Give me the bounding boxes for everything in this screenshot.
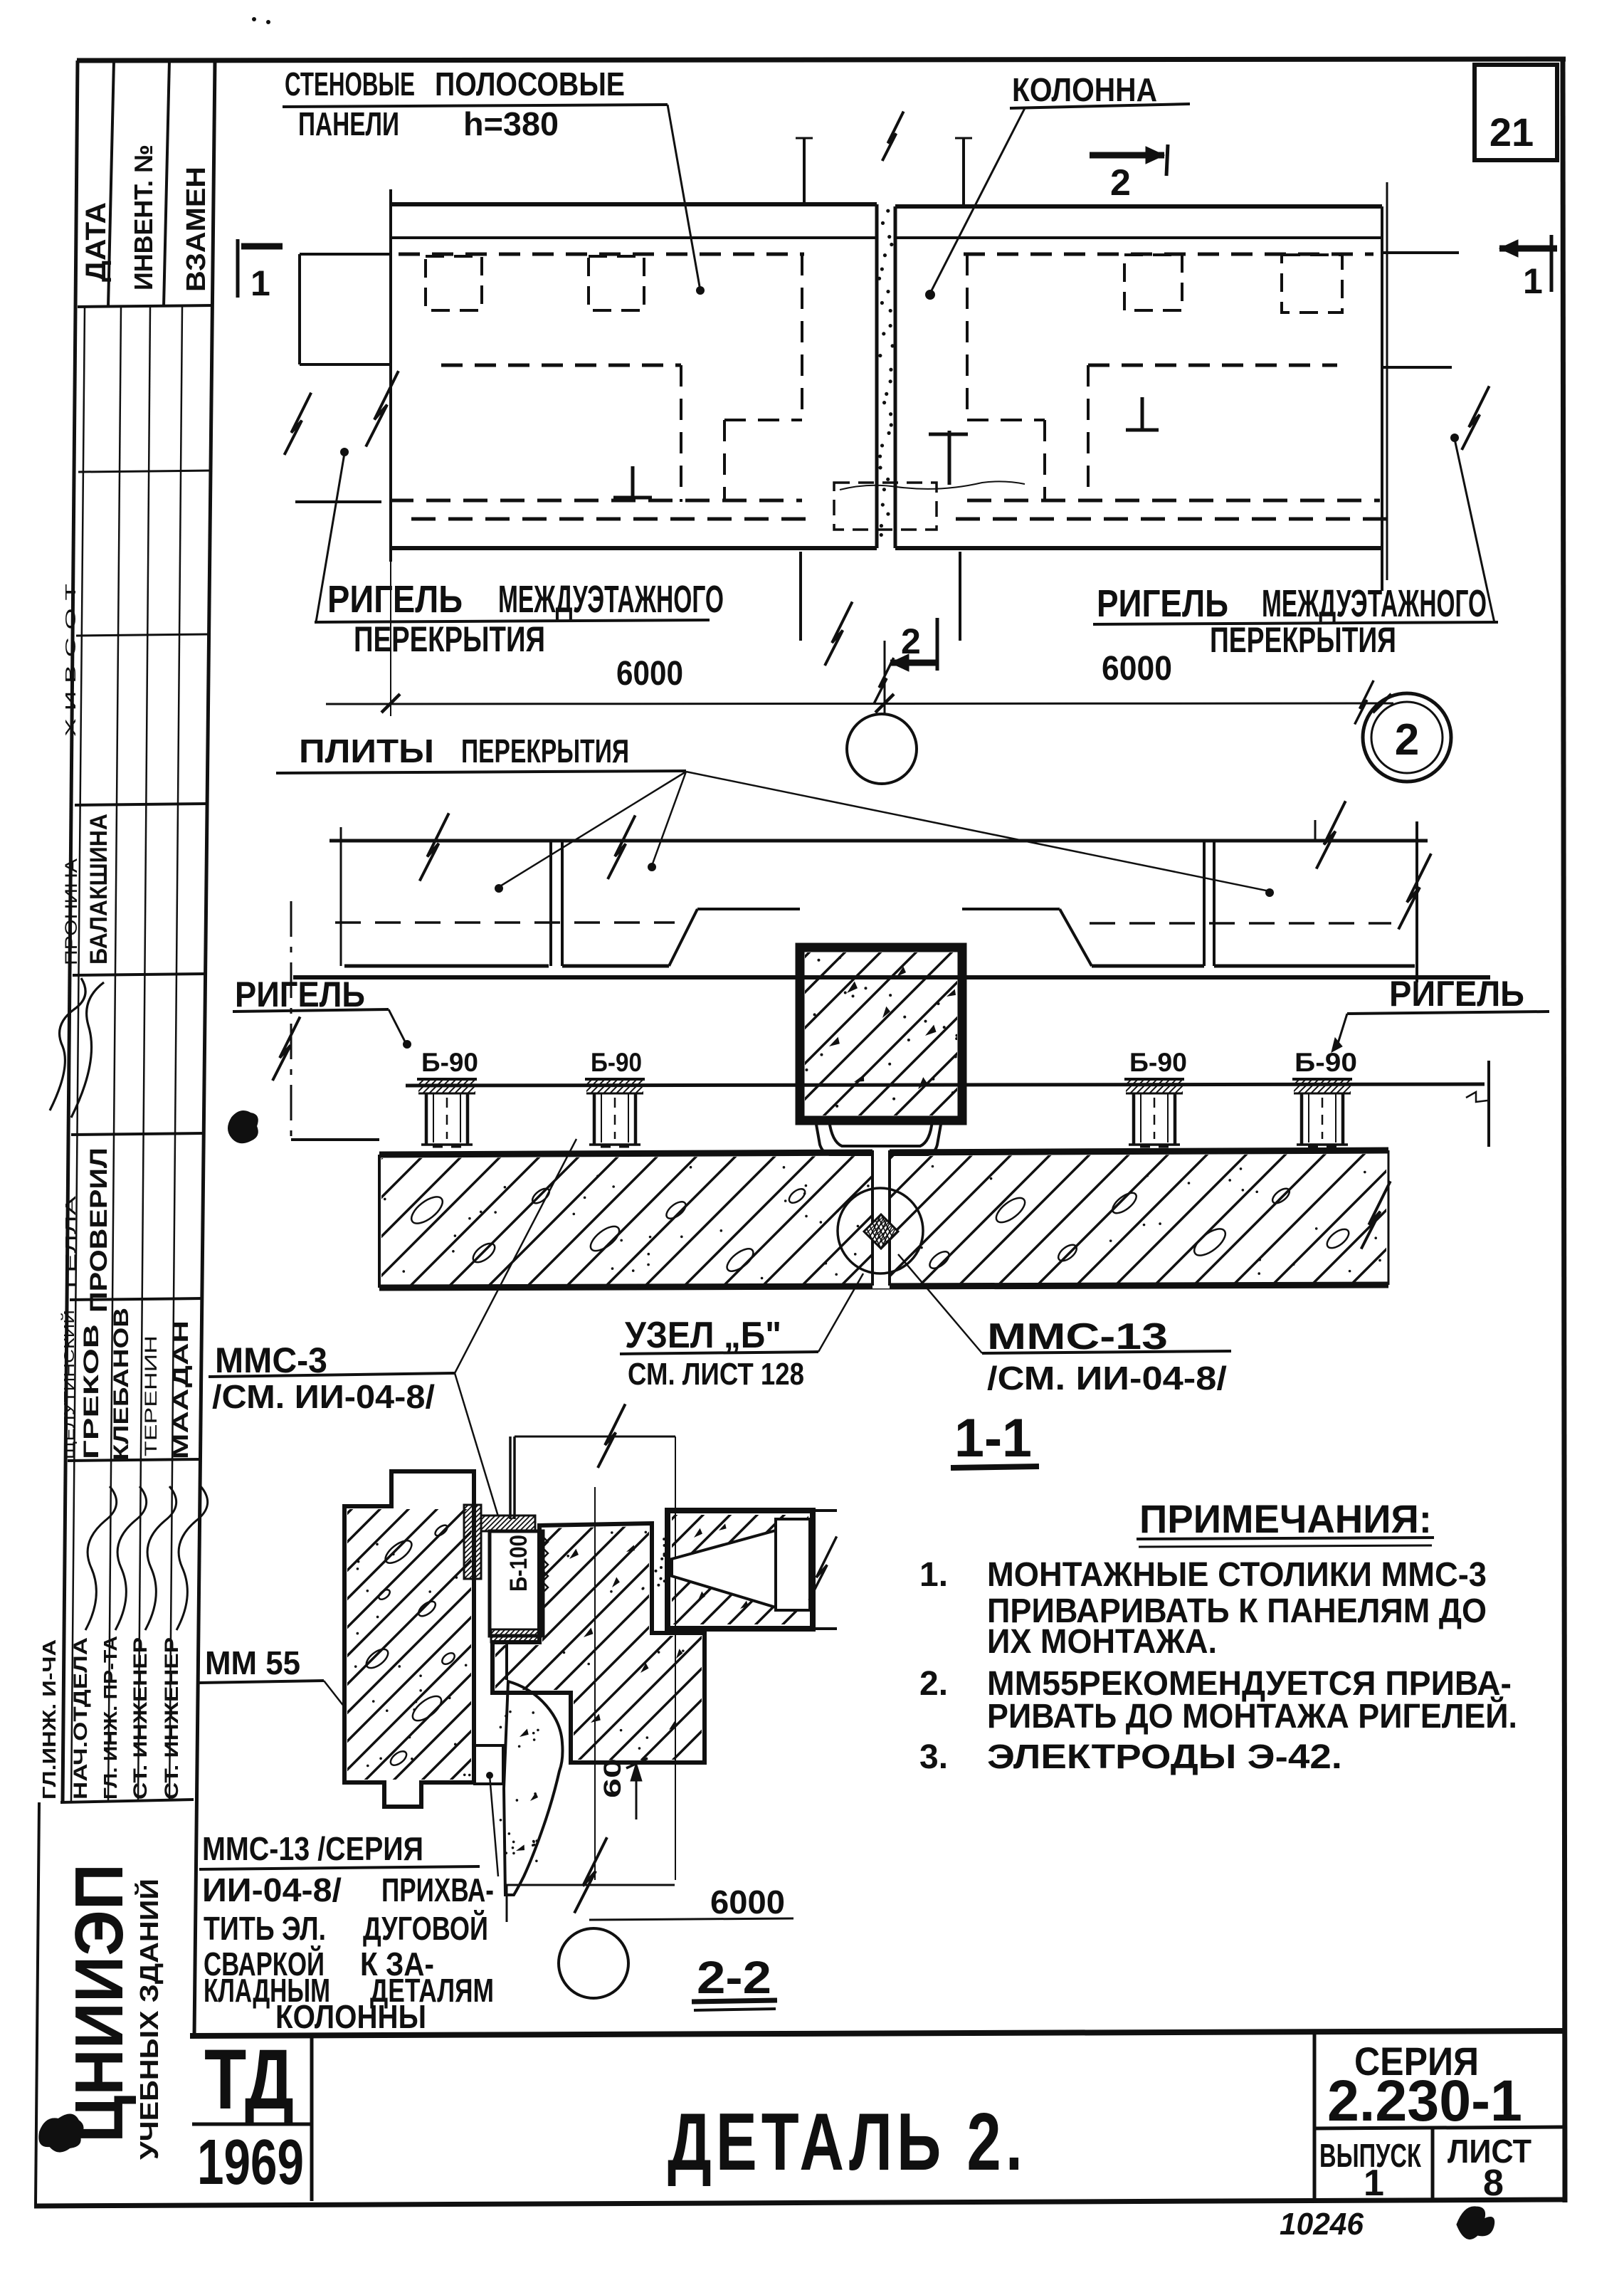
dimension 60 — [636, 1764, 638, 1819]
svg-text:СМ. ЛИСТ 128: СМ. ЛИСТ 128 — [628, 1357, 804, 1392]
svg-text:ЩЕЛУТИНСКИЙ: ЩЕЛУТИНСКИЙ — [60, 1310, 78, 1459]
floor slab top — [329, 839, 1428, 843]
wall continuation left — [300, 253, 391, 256]
slab joint left — [549, 842, 552, 966]
svg-text:ПЕРЕКРЫТИЯ: ПЕРЕКРЫТИЯ — [461, 732, 629, 770]
svg-text:ПРОНИНА: ПРОНИНА — [62, 858, 81, 965]
leaders to floor slabs — [499, 772, 686, 887]
svg-text:ГЕЛЛА: ГЕЛЛА — [63, 1195, 79, 1288]
cast weld blob — [504, 1681, 563, 1895]
svg-text:РИГЕЛЬ: РИГЕЛЬ — [1097, 582, 1228, 625]
title block top line — [190, 2031, 1564, 2036]
svg-text:2: 2 — [901, 621, 921, 661]
leader to column — [930, 108, 1025, 293]
svg-text:КЛЕБАНОВ: КЛЕБАНОВ — [110, 1308, 133, 1461]
svg-text:КОЛОННЫ: КОЛОННЫ — [275, 1998, 426, 2035]
svg-text:8: 8 — [1483, 2163, 1504, 2204]
svg-text:ММС-13 /СЕРИЯ: ММС-13 /СЕРИЯ — [202, 1830, 423, 1867]
column cross-section (hatched) — [800, 947, 962, 1120]
slab bottoms — [344, 965, 549, 968]
svg-text:ПРИХВА-: ПРИХВА- — [381, 1871, 494, 1908]
svg-text:ММ 55: ММ 55 — [205, 1644, 300, 1681]
hidden riegel outline left — [441, 364, 681, 367]
svg-text:ГЛ. ИНЖ. ПР-ТА: ГЛ. ИНЖ. ПР-ТА — [100, 1636, 121, 1800]
svg-text:ВЗАМЕН: ВЗАМЕН — [181, 167, 211, 292]
leader to left panel — [668, 105, 700, 290]
weld mark right panel — [948, 431, 951, 485]
svg-text:6000: 6000 — [710, 1884, 785, 1921]
svg-text:ДЕТАЛЬ 2.: ДЕТАЛЬ 2. — [668, 2097, 1027, 2187]
panel face edge — [473, 1471, 476, 1782]
svg-text:ГРЕКОВ: ГРЕКОВ — [80, 1324, 103, 1459]
svg-text:СТЕНОВЫЕ: СТЕНОВЫЕ — [285, 65, 415, 103]
wall panel left (plan) — [391, 202, 877, 206]
weld seam bottom — [491, 1629, 539, 1642]
svg-text:21: 21 — [1489, 110, 1534, 154]
seriya box — [1313, 2033, 1317, 2201]
wall panel band (hatched concrete) — [379, 1150, 1388, 1155]
column (plan) above panel — [803, 138, 806, 204]
svg-text:ПЛИТЫ: ПЛИТЫ — [299, 732, 434, 770]
svg-text:1-1: 1-1 — [954, 1408, 1032, 1469]
svg-text:МЕЖДУЭТАЖНОГО: МЕЖДУЭТАЖНОГО — [1262, 582, 1487, 625]
panel joint in band — [872, 1149, 890, 1288]
svg-text:ПЕРЕКРЫТИЯ: ПЕРЕКРЫТИЯ — [1210, 620, 1396, 660]
svg-text:Б-100: Б-100 — [505, 1535, 532, 1592]
axis circle 2-2 — [559, 1928, 628, 1998]
svg-text:БАЛАКШИНА: БАЛАКШИНА — [85, 814, 112, 965]
svg-text:СТ. ИНЖЕНЕР: СТ. ИНЖЕНЕР — [130, 1637, 151, 1800]
sidebar signature — [50, 978, 85, 1110]
border frame right — [1563, 59, 1565, 2202]
svg-text:2-2: 2-2 — [697, 1952, 771, 2003]
svg-text:РИВАТЬ ДО МОНТАЖА РИГЕЛЕЙ.: РИВАТЬ ДО МОНТАЖА РИГЕЛЕЙ. — [987, 1696, 1517, 1735]
shear key (white wedge) — [672, 1530, 776, 1607]
svg-text:РИГЕЛЬ: РИГЕЛЬ — [1389, 974, 1524, 1014]
svg-text:1: 1 — [1523, 261, 1543, 301]
svg-text:ГЛ.ИНЖ. И-ЧА: ГЛ.ИНЖ. И-ЧА — [38, 1639, 60, 1800]
svg-text:СТ. ИНЖЕНЕР: СТ. ИНЖЕНЕР — [161, 1637, 182, 1800]
svg-text:h=380: h=380 — [463, 105, 559, 142]
hidden riegel outline right — [1088, 364, 1337, 367]
svg-text:КОЛОННА: КОЛОННА — [1012, 71, 1157, 108]
svg-text:6000: 6000 — [616, 655, 683, 693]
svg-text:3.: 3. — [919, 1738, 948, 1776]
svg-text:РИГЕЛЬ: РИГЕЛЬ — [327, 578, 463, 621]
svg-text:НАЧ.ОТДЕЛА: НАЧ.ОТДЕЛА — [70, 1637, 91, 1800]
panel joint at column — [875, 204, 879, 548]
sealed joint diamond — [864, 1214, 898, 1249]
console seat under column — [829, 1120, 932, 1146]
svg-text:ЦНИИЭП: ЦНИИЭП — [61, 1864, 137, 2143]
svg-text:1: 1 — [1364, 2163, 1384, 2204]
sheet number box 21 — [1475, 65, 1557, 160]
joint detail dashed box — [834, 483, 937, 530]
section mark 2 (top) — [1090, 152, 1164, 159]
border frame top — [77, 59, 1566, 61]
svg-text:УЗЕЛ „Б": УЗЕЛ „Б" — [625, 1315, 781, 1356]
svg-text:/СМ. ИИ-04-8/: /СМ. ИИ-04-8/ — [212, 1378, 435, 1415]
wall panel (plan 2-2, hatched) — [344, 1471, 474, 1807]
slab joint right — [1203, 842, 1206, 966]
svg-text:ПОЛОСОВЫЕ: ПОЛОСОВЫЕ — [435, 65, 625, 103]
lower plate MMC-13 — [475, 1745, 503, 1784]
svg-text:2: 2 — [1395, 715, 1419, 765]
svg-text:1.: 1. — [919, 1556, 948, 1594]
svg-text:Б-90: Б-90 — [1129, 1048, 1187, 1077]
svg-text:ПАНЕЛИ: ПАНЕЛИ — [298, 105, 399, 142]
section mark 1 left — [236, 239, 240, 298]
svg-text:6000: 6000 — [1102, 650, 1172, 688]
opening (dashed square) left panel 2 — [589, 256, 644, 310]
svg-text:ТИТЬ ЭЛ.: ТИТЬ ЭЛ. — [204, 1910, 326, 1947]
svg-text:1: 1 — [251, 263, 270, 303]
weld mark left panel — [631, 466, 635, 498]
svg-text:ЭЛЕКТРОДЫ Э-42.: ЭЛЕКТРОДЫ Э-42. — [987, 1738, 1342, 1776]
riegel end (plan 2-2) — [668, 1511, 813, 1629]
svg-text:ПЕРЕКРЫТИЯ: ПЕРЕКРЫТИЯ — [354, 619, 545, 659]
riegel band (elevation) — [293, 975, 1490, 979]
axis circle below column — [847, 714, 917, 784]
svg-text:/СМ. ИИ-04-8/: /СМ. ИИ-04-8/ — [987, 1360, 1227, 1397]
svg-text:Б-90: Б-90 — [1295, 1048, 1357, 1077]
svg-text:РИГЕЛЬ: РИГЕЛЬ — [235, 975, 365, 1014]
svg-text:Х И В С О Т: Х И В С О Т — [63, 584, 79, 737]
border frame bottom — [34, 2200, 1566, 2206]
opening right panel 1 — [1124, 255, 1182, 310]
svg-text:60: 60 — [599, 1758, 626, 1798]
ink blob — [228, 1111, 258, 1143]
svg-text:ИНВЕНТ. №: ИНВЕНТ. № — [129, 145, 158, 290]
sidebar stamp column grid — [63, 61, 78, 1802]
section mark 1 right — [1499, 246, 1557, 252]
wall continuation right — [1382, 251, 1459, 254]
svg-text:10246: 10246 — [1280, 2207, 1364, 2242]
svg-text:ДАТА: ДАТА — [80, 202, 112, 282]
weld strip vertical — [464, 1505, 481, 1579]
svg-text:МЕЖДУЭТАЖНОГО: МЕЖДУЭТАЖНОГО — [498, 578, 724, 621]
dimension 6000 (2-2) — [504, 1782, 505, 1886]
column (plan) below panel — [799, 552, 802, 641]
svg-text:1969: 1969 — [197, 2127, 304, 2198]
svg-text:ПРИМЕЧАНИЯ:: ПРИМЕЧАНИЯ: — [1139, 1496, 1432, 1541]
column (plan 2-2, hatched) — [492, 1523, 705, 1763]
svg-text:Б-90: Б-90 — [421, 1048, 478, 1077]
svg-text:ДУГОВОЙ: ДУГОВОЙ — [363, 1910, 488, 1947]
opening (dashed square) left panel 1 — [426, 256, 482, 310]
svg-text:2: 2 — [1110, 162, 1131, 204]
svg-text:ПРОВЕРИЛ: ПРОВЕРИЛ — [85, 1147, 112, 1313]
detail circle uzel B — [838, 1188, 923, 1273]
svg-text:ТЕРЕНИН: ТЕРЕНИН — [142, 1335, 161, 1456]
svg-text:МОНТАЖНЫЕ СТОЛИКИ ММС-3: МОНТАЖНЫЕ СТОЛИКИ ММС-3 — [987, 1556, 1487, 1594]
opening right panel 2 — [1282, 255, 1342, 312]
svg-text:УЧЕБНЫХ ЗДАНИЙ: УЧЕБНЫХ ЗДАНИЙ — [134, 1879, 164, 2160]
axis bubble 2 — [1363, 693, 1451, 782]
svg-text:2.: 2. — [919, 1665, 948, 1703]
weld seam top — [481, 1516, 535, 1531]
svg-text:ИИ-04-8/: ИИ-04-8/ — [202, 1871, 342, 1908]
dimension line 6000+6000 — [326, 703, 1393, 704]
svg-text:2.230-1: 2.230-1 — [1327, 2069, 1522, 2133]
wall panel right (plan) — [895, 204, 1382, 209]
section 2-2 upper panel edge — [515, 1436, 675, 1438]
svg-text:ТД: ТД — [204, 2032, 294, 2127]
ink blot — [39, 2114, 83, 2151]
sidebar CNIIEP block — [36, 1802, 39, 2204]
mark 2b — [1457, 2207, 1494, 2239]
svg-text:МААДАН: МААДАН — [169, 1320, 193, 1459]
plate MM-55 with b-100 — [490, 1531, 543, 1636]
sidebar signatures row — [85, 1486, 117, 1630]
section mark 2 (bottom) — [890, 660, 937, 666]
svg-text:Б-90: Б-90 — [591, 1048, 642, 1077]
svg-text:ИХ МОНТАЖА.: ИХ МОНТАЖА. — [987, 1623, 1217, 1661]
TD box — [310, 2034, 314, 2201]
